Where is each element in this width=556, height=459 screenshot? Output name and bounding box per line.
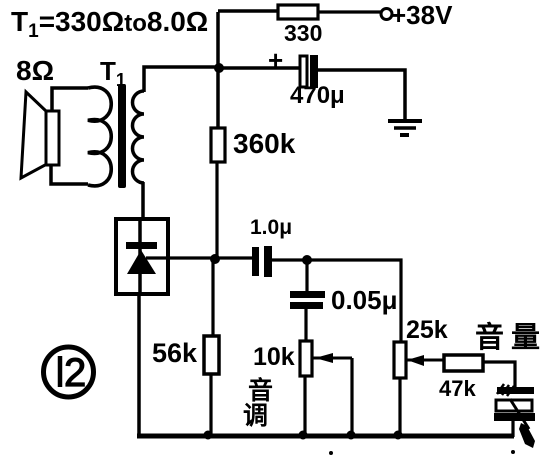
wire left riser diode box to rail [137,294,141,436]
svg-text:360k: 360k [233,128,296,159]
wire 360k to node B [215,162,218,259]
transformer T1 core [118,84,126,188]
node A junction dot [214,63,224,73]
svg-text:2: 2 [64,351,86,395]
wire 47k to earphone [483,362,515,388]
ground [388,121,422,135]
wire node C to 25k pot [307,260,401,342]
svg-text:330: 330 [284,20,322,46]
capacitor C 470u electrolytic [268,45,345,109]
speck below rail right [511,450,515,454]
svg-text:音量: 音量 [475,320,547,354]
svg-text:8Ω: 8Ω [16,55,54,86]
wire bottom rail [137,434,514,439]
wire vertical rail top [216,12,220,128]
svg-text:+: + [268,45,283,75]
capacitor 1.0u [250,216,292,277]
svg-text:25k: 25k [406,316,448,344]
svg-text:+38V: +38V [391,0,453,30]
speck below rail left [329,451,333,455]
wire diode box to node B [146,256,252,259]
transformer T1 primary winding [88,87,111,186]
svg-text:调: 调 [243,402,268,430]
svg-text:47k: 47k [439,376,476,401]
wire capacitor 1.0u to node C [272,258,307,261]
resistor 47k [439,355,483,401]
wire 10k wiper to rail [350,358,353,434]
resistor 330 [278,5,322,46]
potentiometer 10k tone [253,341,312,376]
wire top horizontal [218,9,278,13]
resistor 56k [152,336,219,374]
junction dot 56k rail [204,431,213,440]
figure number 12 badge [44,347,94,397]
wire node A to capacitor 470u [219,66,300,70]
node B junction dot [210,254,220,264]
wire 10k pot bottom to rail [303,376,306,434]
wire node B down to 56k [211,259,214,336]
wire capacitor 470u to ground [318,70,405,121]
wire 56k bottom to rail [209,374,212,434]
potentiometer 25k volume [394,316,448,378]
svg-text:56k: 56k [152,338,198,368]
svg-text:1.0μ: 1.0μ [250,216,292,239]
resistor 360k [211,128,296,162]
wire capacitor 0.05u to 10k pot [304,309,307,341]
svg-text:10k: 10k [253,343,295,371]
label 8 ohm [16,55,54,86]
junction dot 10k wiper rail [347,431,356,440]
wire resistor 330 to supply terminal [318,10,381,13]
supply terminal +38V [381,0,453,30]
svg-text:音: 音 [248,376,273,405]
junction dot 10k rail [299,431,308,440]
title label T1=330ohm to 8.0ohm [11,6,208,42]
wire transformer secondary bottom to diode box [141,182,145,221]
wire speaker top to transformer [52,88,88,111]
wire 25k bottom to rail [398,378,401,434]
25k wiper arrow [406,355,444,366]
svg-text:470μ: 470μ [290,82,345,109]
svg-text:T1=330Ωto8.0Ω: T1=330Ωto8.0Ω [11,6,208,42]
transformer T1 secondary winding [133,91,145,183]
capacitor 0.05u [290,285,398,315]
wire speaker bottom to transformer [51,165,88,184]
earphone jack assembly [494,384,535,448]
junction dot 25k rail [394,431,403,440]
speaker LS 8 ohm [21,92,59,178]
svg-text:0.05μ: 0.05μ [331,285,398,315]
label T1 [100,56,126,90]
wire transformer secondary top to node A [144,67,219,92]
node C junction dot [302,255,312,265]
10k wiper arrow [312,353,352,363]
diode D1 in box [116,219,168,294]
wire node C down to capacitor 0.05u [305,260,308,291]
